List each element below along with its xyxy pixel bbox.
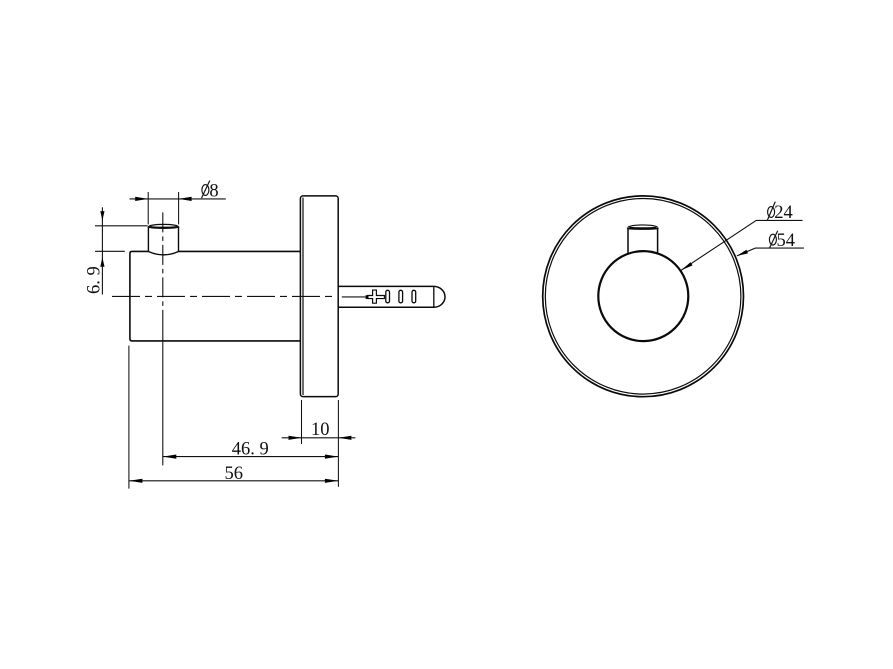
svg-text:54: 54 [777, 231, 796, 251]
dim 6.9 dimension line [101, 207, 103, 294]
leader line Ø24 [681, 220, 802, 270]
dim 6.9 top arrow [100, 211, 104, 221]
dim 56 dimension line [129, 480, 339, 482]
label Ø24 [767, 202, 792, 224]
dim Ø8 dimension line [130, 198, 226, 200]
leader Ø54 arrowhead [737, 250, 748, 256]
dim 46.9 dimension line [163, 456, 339, 458]
knob top ellipse (side view) [148, 224, 178, 226]
label Ø54 [769, 231, 795, 251]
extension line from knob center down to dims [162, 318, 164, 465]
svg-text:8: 8 [209, 181, 218, 201]
wall plug / screw shaft [338, 286, 445, 307]
dim Ø8 left arrow [135, 197, 148, 201]
screw cap tangent line [433, 286, 435, 307]
flange inner circle (front view) [545, 198, 741, 394]
dim 10 extension lines [301, 400, 303, 444]
knob top ellipse (front view) [628, 225, 658, 228]
flange inner edge line [302, 198, 304, 395]
screw tip filled square [366, 295, 369, 299]
dim Ø8 right arrow [179, 197, 192, 201]
wall flange (side view) [300, 196, 338, 397]
flange outer circle (front view) [543, 196, 744, 397]
dim 46.9 left arrow [163, 455, 177, 459]
horizontal centerline (left view) [112, 295, 335, 297]
plug slot 2 [399, 290, 403, 303]
leader Ø24 arrowhead [681, 262, 692, 270]
plug slot 1 [386, 290, 390, 303]
plug slot 3 [412, 290, 416, 303]
dim Ø8 label [202, 181, 219, 202]
svg-text:56: 56 [225, 464, 244, 484]
svg-text:24: 24 [774, 203, 793, 223]
svg-text:10: 10 [311, 420, 330, 440]
knob (side view) sides [148, 227, 178, 252]
dim 10 right arrow [338, 436, 351, 440]
svg-text:46. 9: 46. 9 [232, 440, 269, 460]
dim 56 left arrow [129, 479, 143, 483]
dim 10 left arrow [289, 436, 302, 440]
dim 6.9 bottom arrow [100, 257, 104, 267]
dim 6.9 extension lines [95, 225, 148, 227]
dim Ø8 extension lines [147, 192, 149, 224]
dim 10 dimension line [282, 437, 356, 439]
knob sides (front view) [628, 228, 658, 254]
dim 56 right arrow [325, 479, 339, 483]
svg-text:6. 9: 6. 9 [84, 266, 104, 294]
hook body cylinder (side view) [130, 251, 301, 341]
screw cross recess (plus outline) [368, 290, 385, 303]
knob saddle curve at cylinder top [148, 252, 178, 255]
leader line Ø54 [737, 248, 804, 256]
knob vertical centerline [162, 212, 164, 318]
dim 46.9 right arrow [325, 455, 339, 459]
hook post circle Ø24 (front view) [598, 251, 688, 341]
dim 56 left extension line [128, 346, 130, 489]
knob top lower arc thick (front view) [628, 226, 658, 229]
screw axis line inside plug [342, 296, 366, 298]
